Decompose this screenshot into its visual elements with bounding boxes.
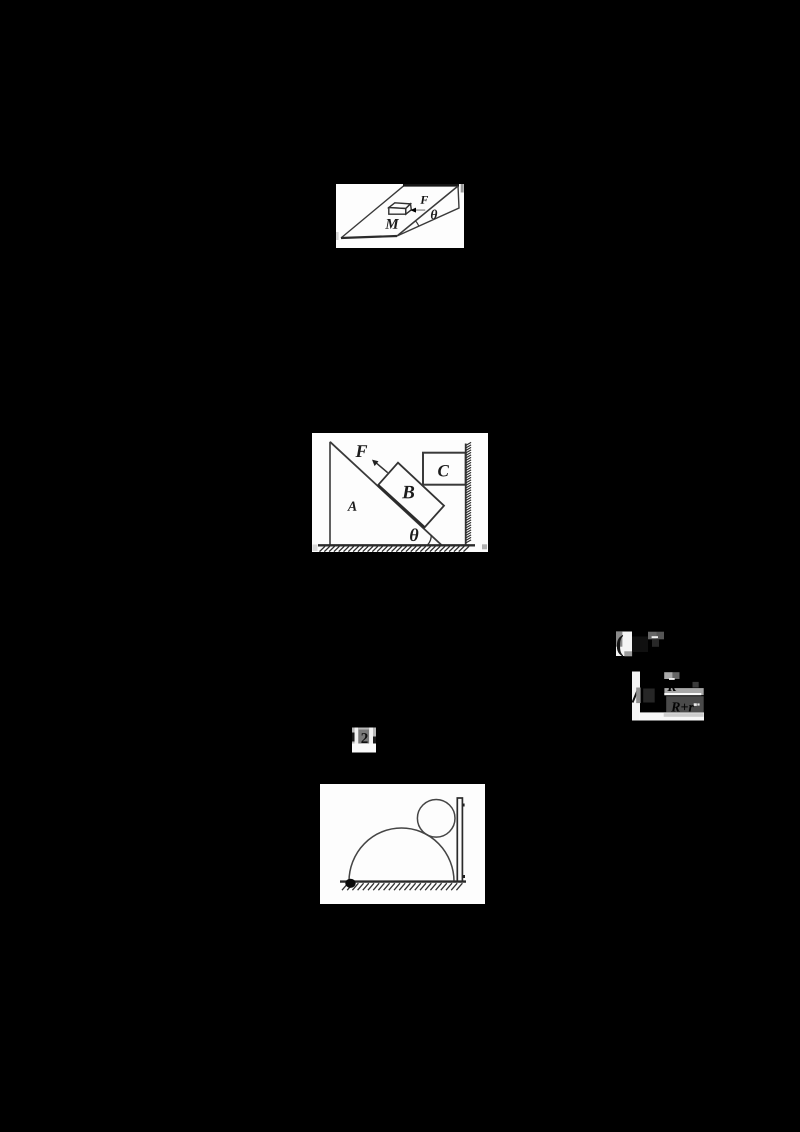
equation fragment patch A	[616, 632, 632, 657]
force F label fig2	[355, 445, 367, 457]
force F arrow line fig2	[376, 462, 388, 472]
gray tick left fig1	[336, 232, 339, 240]
dark block patch A	[632, 637, 648, 653]
ground line fig2	[318, 544, 475, 546]
angle arc theta fig2	[428, 535, 432, 545]
dome semicircle	[349, 828, 454, 882]
gray squares numerator	[664, 672, 672, 679]
diagonal mark on white bar patch B	[633, 691, 638, 703]
gray blocks right patch A	[648, 632, 657, 640]
figure 1 white panel	[336, 184, 464, 248]
angle label theta fig2	[410, 528, 418, 541]
denominator R+r glyphs	[671, 702, 694, 711]
gray square next to bar patch B	[636, 688, 640, 704]
fraction bar	[664, 693, 701, 695]
block B	[378, 463, 444, 528]
equation fragment patch B (fraction R/(R+r))	[632, 672, 640, 721]
gray sub-blocks patch A	[616, 632, 622, 647]
block B label	[402, 486, 414, 499]
gray tick top-right fig1	[461, 184, 464, 193]
block C	[423, 453, 466, 485]
denominator band	[666, 696, 704, 712]
angle label theta fig1	[431, 210, 437, 220]
block C label	[438, 465, 449, 476]
inclined plane bottom edge	[341, 236, 397, 238]
gray tick ground-left fig2	[313, 545, 318, 552]
block M front face	[389, 208, 406, 215]
inclined plane outline	[341, 186, 459, 238]
parenthesis glyph patch A	[617, 635, 623, 657]
numerator R glyph	[667, 682, 676, 691]
force F arrowhead fig1	[410, 208, 416, 213]
figure 3 white panel	[320, 784, 485, 904]
rod tick bottom	[463, 875, 465, 878]
ground hatching fig3	[342, 883, 462, 890]
wedge A label	[347, 502, 356, 511]
wall line fig2	[465, 444, 467, 546]
incline hypotenuse edge	[397, 186, 458, 236]
wall hatching fig2	[466, 442, 471, 543]
gray tick ground-right fig2	[482, 544, 487, 549]
ground hatching fig2	[320, 546, 470, 551]
force F label fig1	[420, 196, 428, 204]
force F arrow line fig1	[416, 209, 426, 211]
dim gray square mid patch B	[643, 689, 655, 703]
wedge A vertical edge	[329, 442, 331, 546]
plus-F marks numerator	[693, 682, 699, 688]
rod / wall fig3	[457, 798, 462, 882]
inclined plane top edge (flush with panel top)	[403, 184, 459, 187]
glyph patch C	[361, 733, 367, 743]
wedge A hypotenuse	[330, 442, 442, 545]
block M right face	[406, 204, 412, 214]
force F arrowhead fig2	[372, 460, 379, 467]
ground line fig3	[340, 880, 466, 882]
black dot fig3	[345, 879, 355, 888]
block B bottom edge on incline	[378, 485, 425, 527]
ball circle	[417, 800, 455, 838]
block M label	[385, 219, 399, 229]
gray band above fraction bar	[664, 688, 703, 695]
block M top face	[389, 203, 411, 209]
rod tick top	[463, 804, 465, 807]
figure 2 white panel	[312, 433, 488, 552]
angle arc theta fig1	[416, 221, 419, 226]
equation fragment patch C	[352, 728, 376, 744]
